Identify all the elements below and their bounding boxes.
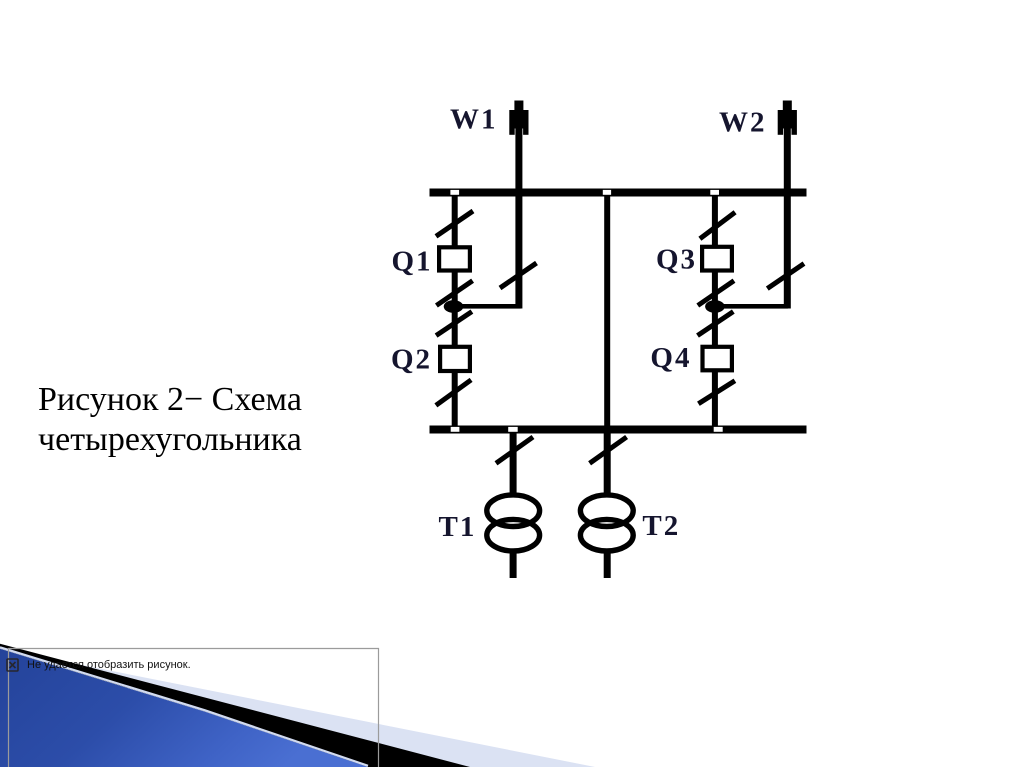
breaker Q2 (440, 347, 470, 371)
wire T1 tail (510, 552, 517, 578)
disconnector slash W1 (500, 263, 537, 288)
transformer T1 (487, 495, 540, 551)
disconnector slash W2 (767, 264, 804, 289)
svg-text:W2: W2 (719, 107, 767, 139)
wire link node-W1 (455, 304, 521, 309)
svg-text:T1: T1 (439, 511, 477, 543)
disconnector slash Q1 lower (436, 281, 472, 306)
disconnector slash Q2 upper (436, 312, 472, 336)
blue gradient wedge (0, 649, 368, 767)
black wedge (0, 644, 470, 767)
node square top middle (603, 190, 611, 195)
wire T1 drop (510, 434, 517, 495)
wire T2 tail (604, 552, 611, 578)
bus bottom (430, 426, 807, 434)
svg-text:Q4: Q4 (650, 342, 691, 374)
disconnector slash Q3 upper (700, 212, 735, 238)
disconnector slash Q4 upper (698, 312, 734, 336)
svg-text:Не удается отобразить рисунок.: Не удается отобразить рисунок. (27, 659, 191, 671)
svg-text:Рисунок 2− Схема: Рисунок 2− Схема (38, 381, 302, 418)
wire W1 feeder (515, 124, 522, 309)
feeder arrow W2 (778, 101, 797, 135)
svg-text:Q1: Q1 (392, 245, 433, 277)
breaker Q1 (439, 247, 470, 270)
junction node left (444, 300, 464, 313)
light separator line (0, 647, 368, 766)
node square top Q1 (450, 190, 459, 195)
wire Q3/Q4 column (712, 196, 718, 426)
disconnector slash Q2 lower (436, 380, 471, 406)
disconnector slash Q4 lower (698, 381, 735, 404)
svg-text:T2: T2 (642, 510, 680, 542)
node square bottom Q2 (451, 427, 460, 432)
node square bottom T1 (508, 427, 518, 432)
wire W2 feeder (784, 124, 791, 309)
lavender wedge (0, 649, 595, 767)
junction node right (705, 300, 725, 313)
svg-text:W1: W1 (450, 104, 498, 136)
wire middle tie (604, 196, 610, 426)
breaker Q4 (703, 347, 732, 371)
feeder arrow W1 (509, 101, 528, 135)
svg-text:Q3: Q3 (656, 244, 697, 276)
node square bottom Q4 (714, 427, 723, 432)
wire Q1/Q2 column (452, 196, 458, 426)
transformer T2 (580, 495, 633, 551)
disconnector slash T2 (590, 437, 627, 463)
bus top (430, 189, 807, 197)
wire T2 drop (604, 434, 611, 495)
disconnector slash Q1 upper (436, 211, 473, 236)
breaker Q3 (702, 247, 732, 271)
node square top Q3 (710, 190, 719, 195)
svg-text:Q2: Q2 (391, 343, 432, 375)
broken-image icon (7, 659, 18, 671)
disconnector slash Q3 lower (698, 281, 734, 306)
wire link node-W2 (715, 304, 788, 309)
svg-text:четырехугольника: четырехугольника (38, 421, 302, 458)
disconnector slash T1 (496, 437, 533, 463)
placeholder frame (9, 649, 379, 767)
